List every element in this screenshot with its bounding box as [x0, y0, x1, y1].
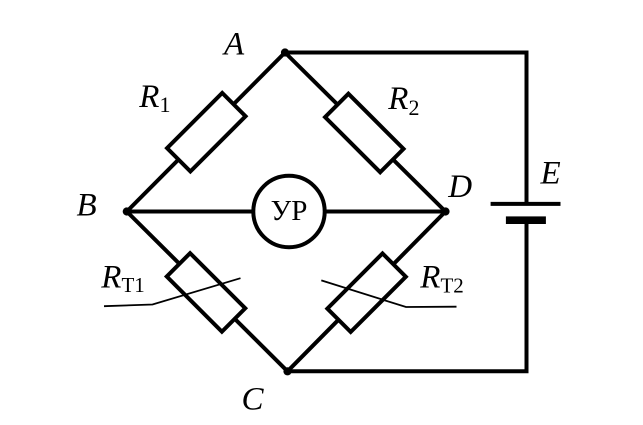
battery E negative plate [506, 216, 546, 224]
svg-text:УР: УР [271, 195, 308, 227]
svg-text:D: D [447, 169, 472, 205]
thermistor RT1 body [167, 253, 245, 331]
wire B-C [127, 212, 288, 372]
wire C-D [288, 212, 446, 372]
wire A to battery positive (top-right rail) [285, 53, 527, 203]
svg-text:C: C [242, 381, 265, 417]
wire A-D [285, 53, 446, 212]
svg-text:A: A [222, 26, 245, 62]
resistor R1 body [167, 93, 245, 171]
wire battery negative to C (bottom-right rail) [288, 221, 527, 371]
svg-text:R2: R2 [387, 81, 419, 120]
wire B-D (bridge diagonal through indicator) [127, 210, 446, 214]
thermistor RT1 strike line [104, 278, 241, 306]
node C junction dot [283, 367, 291, 375]
wire A-B [127, 53, 285, 212]
svg-text:E: E [540, 155, 561, 191]
svg-text:B: B [77, 187, 97, 223]
node B junction dot [123, 207, 131, 215]
indicator U1 (null detector УР) circle [253, 176, 324, 247]
node A junction dot [281, 48, 289, 56]
node D junction dot [441, 207, 449, 215]
thermistor RT2 body [327, 253, 405, 331]
resistor R2 body [325, 94, 403, 172]
svg-text:RТ2: RТ2 [419, 260, 464, 298]
thermistor RT2 strike line [321, 280, 456, 307]
svg-text:RТ1: RТ1 [100, 260, 145, 298]
svg-text:R1: R1 [138, 79, 170, 117]
battery E positive plate [491, 202, 561, 206]
